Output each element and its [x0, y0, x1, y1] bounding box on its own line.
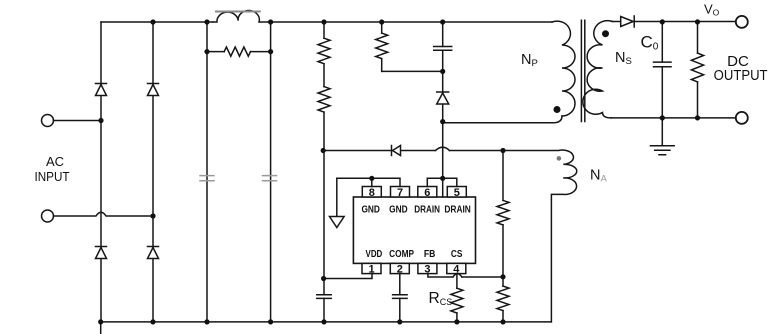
junction (662.3,117.9)	[660, 115, 665, 120]
svg-text:GND: GND	[389, 204, 408, 215]
junction (153,22)	[150, 19, 155, 24]
op IC U1 body	[353, 197, 475, 263]
wire NS top lead	[613, 21, 621, 23]
junction (503,321.9)	[500, 319, 505, 324]
wire stub below rail	[100, 322, 102, 334]
junction (442.7,121.6)	[440, 119, 445, 124]
svg-text:FB: FB	[424, 248, 436, 259]
junction (442.7,22)	[440, 19, 445, 24]
wire drain vertical (hop under aux rail)	[442, 122, 444, 179]
capacitor C4 (VDD)	[317, 295, 331, 299]
winding NA	[503, 150, 577, 322]
pin 2	[390, 263, 409, 273]
resistor R4 (clamp)	[381, 22, 383, 71]
pin 5	[447, 187, 466, 198]
svg-text:8: 8	[369, 187, 375, 199]
wire aux rail with diode and hop	[323, 150, 503, 152]
junction (442.7,178.3)	[440, 176, 445, 181]
wire top rail right	[271, 21, 552, 23]
pin 7	[391, 187, 410, 198]
pin 4	[447, 263, 466, 273]
pin 3	[418, 263, 437, 273]
transformer primary NP	[552, 21, 575, 116]
wire output top	[634, 21, 736, 23]
ground triangle	[330, 217, 345, 228]
svg-text:DRAIN: DRAIN	[414, 204, 440, 215]
junction (207,321.9)	[204, 319, 209, 324]
svg-text:1: 1	[368, 264, 374, 276]
pin 8	[362, 187, 381, 198]
capacitor C2 (bulk, faded)	[263, 176, 277, 181]
wire clamp R to node	[382, 70, 443, 72]
wire output bottom	[611, 117, 736, 119]
wire DRAIN bridge (pins 6,5)	[427, 178, 457, 197]
wire inductor left leg down	[206, 22, 208, 322]
diode D4	[148, 246, 159, 248]
pin 1	[362, 263, 381, 273]
wire	[54, 120, 102, 122]
junction (442.7,71.4)	[440, 69, 445, 74]
junction (153,321.9)	[150, 319, 155, 324]
wire startup chain	[323, 22, 325, 279]
polarity dot NS	[602, 30, 609, 37]
resistor R1 (parallel damping)	[207, 51, 224, 53]
diode D5 (clamp)	[442, 71, 444, 121]
svg-text:VDD: VDD	[366, 248, 383, 259]
junction (697.5,117.9)	[695, 115, 700, 120]
wire top rail left	[101, 21, 213, 23]
wire GND bridge (pins 8,7)	[337, 178, 400, 186]
svg-text:4: 4	[453, 264, 460, 276]
junction (503,276.8)	[500, 274, 505, 279]
wire bridge right leg	[152, 22, 154, 322]
wire FB pin3 (hop over pin4 wire)	[428, 274, 503, 277]
junction (324,22)	[321, 19, 326, 24]
junction (456.9,321.9)	[454, 319, 459, 324]
svg-text:COMP: COMP	[389, 248, 414, 259]
wire CS pin4	[456, 274, 458, 322]
junction (371.8,178.3)	[369, 176, 374, 181]
resistor R2	[318, 38, 330, 64]
resistor R3	[318, 87, 330, 113]
junction (270.6,321.9)	[268, 319, 273, 324]
IC pin numbers	[368, 187, 460, 276]
junction (503,150.5)	[500, 148, 505, 153]
output terminal lower	[736, 112, 748, 124]
svg-text:CS: CS	[451, 248, 463, 259]
junction (323.6,278.5)	[321, 276, 326, 281]
svg-text:6: 6	[424, 187, 430, 199]
svg-text:GND: GND	[361, 204, 380, 215]
wire divider	[502, 151, 504, 322]
resistor RCS	[451, 288, 463, 313]
capacitor C3 (clamp)	[442, 22, 444, 71]
wire inductor right leg down	[270, 22, 272, 322]
svg-text:5: 5	[454, 187, 460, 199]
junction (207,22)	[204, 19, 209, 24]
svg-text:7: 7	[397, 187, 403, 199]
wire (hop over left leg)	[54, 212, 154, 216]
wire COMP pin2	[399, 274, 401, 322]
svg-text:INPUT: INPUT	[34, 169, 70, 184]
junction (381.7,22)	[379, 19, 384, 24]
capacitor C0	[661, 22, 663, 118]
capacitor C1 (bulk, faded)	[200, 176, 214, 181]
AC input terminal lower	[42, 210, 54, 222]
junction (270.6,51.6)	[268, 49, 273, 54]
inductor L1 (with core bar)	[213, 10, 271, 22]
wire to ground	[336, 178, 338, 216]
wire drain node to primary bottom	[443, 116, 562, 123]
junction (101,120.5)	[98, 118, 103, 123]
resistor R6 (divider upper)	[497, 200, 509, 225]
IC pin labels	[361, 204, 471, 260]
junction (207,51.6)	[204, 49, 209, 54]
resistor R5 (load)	[697, 22, 699, 118]
diode D7 (output rectifier)	[633, 16, 635, 27]
svg-text:3: 3	[424, 264, 430, 276]
capacitor C5 (COMP)	[393, 295, 408, 299]
svg-text:2: 2	[397, 264, 403, 276]
wire bridge left leg	[100, 22, 102, 322]
junction (270.6,22)	[268, 19, 273, 24]
svg-text:DRAIN: DRAIN	[444, 204, 471, 215]
pin 6	[418, 187, 437, 198]
transformer core	[581, 20, 584, 121]
transformer secondary NS	[583, 21, 613, 118]
resistor R7 (divider lower)	[497, 286, 509, 311]
ground (earth) symbol	[650, 118, 674, 155]
junction (697.5,21.9)	[695, 19, 700, 24]
svg-text:OUTPUT: OUTPUT	[714, 66, 768, 83]
diode D6 (aux rectifier, pointing left)	[391, 146, 393, 156]
polarity dot NA	[557, 156, 562, 161]
junction (399.8,321.9)	[397, 319, 402, 324]
diode D1	[96, 83, 107, 85]
polarity dot NP	[554, 106, 561, 113]
diode D3	[96, 246, 107, 248]
diode D2	[148, 83, 159, 85]
bottom rail	[101, 321, 552, 323]
junction (323.2,150.5)	[321, 148, 326, 153]
junction (324,321.9)	[321, 319, 326, 324]
junction (662.3,21.9)	[660, 19, 665, 24]
junction (153,216)	[150, 213, 155, 218]
junction (100.7,321.9)	[98, 319, 103, 324]
wire VDD pin1	[324, 274, 372, 279]
AC input terminal upper	[42, 115, 54, 127]
output terminal upper	[736, 16, 748, 28]
svg-text:AC: AC	[46, 154, 64, 169]
